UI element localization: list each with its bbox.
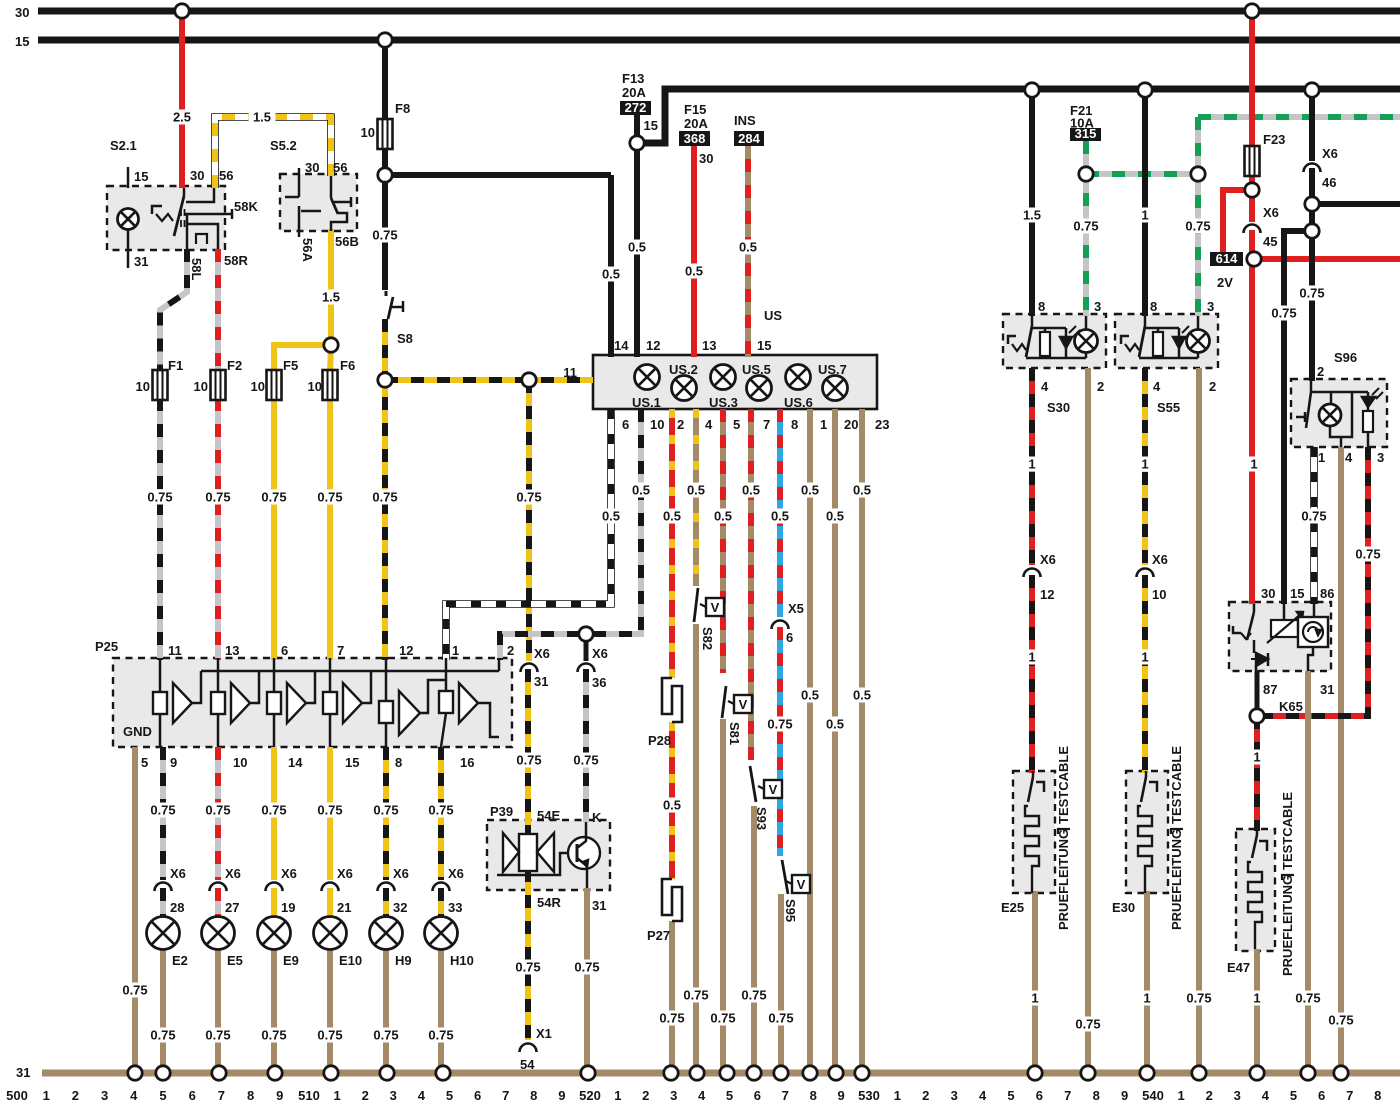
svg-text:4: 4 bbox=[1345, 450, 1353, 465]
svg-text:X6: X6 bbox=[448, 866, 464, 881]
svg-text:X6: X6 bbox=[1263, 205, 1279, 220]
svg-text:0.75: 0.75 bbox=[741, 988, 766, 1003]
svg-text:12: 12 bbox=[646, 338, 660, 353]
svg-text:S96: S96 bbox=[1334, 350, 1357, 365]
svg-text:0.5: 0.5 bbox=[801, 688, 819, 703]
svg-text:0.5: 0.5 bbox=[853, 688, 871, 703]
svg-text:0.75: 0.75 bbox=[683, 988, 708, 1003]
svg-text:1: 1 bbox=[1253, 991, 1260, 1006]
svg-text:284: 284 bbox=[738, 131, 760, 146]
svg-text:H9: H9 bbox=[395, 953, 412, 968]
svg-text:36: 36 bbox=[592, 675, 606, 690]
svg-text:7: 7 bbox=[1064, 1088, 1071, 1103]
svg-text:3: 3 bbox=[390, 1088, 397, 1103]
svg-text:US.6: US.6 bbox=[784, 395, 813, 410]
svg-text:1: 1 bbox=[1253, 750, 1260, 765]
svg-text:614: 614 bbox=[1216, 251, 1238, 266]
svg-text:3: 3 bbox=[1377, 450, 1384, 465]
svg-text:15: 15 bbox=[15, 34, 29, 49]
svg-text:0.75: 0.75 bbox=[1185, 219, 1210, 234]
svg-text:4: 4 bbox=[1262, 1088, 1270, 1103]
svg-text:0.75: 0.75 bbox=[516, 753, 541, 768]
svg-text:8: 8 bbox=[247, 1088, 254, 1103]
svg-text:0.75: 0.75 bbox=[372, 228, 397, 243]
svg-text:PRUEFLEITUNG: PRUEFLEITUNG bbox=[1169, 829, 1184, 930]
svg-text:F6: F6 bbox=[340, 358, 355, 373]
svg-text:7: 7 bbox=[337, 643, 344, 658]
svg-text:X1: X1 bbox=[536, 1026, 552, 1041]
svg-text:13: 13 bbox=[702, 338, 716, 353]
svg-text:0.75: 0.75 bbox=[428, 1028, 453, 1043]
svg-text:30: 30 bbox=[15, 5, 29, 20]
svg-text:X6: X6 bbox=[225, 866, 241, 881]
svg-text:0.75: 0.75 bbox=[1271, 306, 1296, 321]
svg-text:6: 6 bbox=[754, 1088, 761, 1103]
svg-text:1: 1 bbox=[452, 643, 459, 658]
svg-text:1: 1 bbox=[1250, 457, 1257, 472]
svg-text:2: 2 bbox=[1097, 379, 1104, 394]
svg-text:10: 10 bbox=[233, 755, 247, 770]
svg-text:X6: X6 bbox=[393, 866, 409, 881]
svg-text:14: 14 bbox=[614, 338, 629, 353]
svg-text:V: V bbox=[797, 877, 806, 892]
svg-text:0.75: 0.75 bbox=[573, 753, 598, 768]
svg-text:8: 8 bbox=[395, 755, 402, 770]
svg-text:15: 15 bbox=[757, 338, 771, 353]
svg-text:4: 4 bbox=[1153, 379, 1161, 394]
svg-text:6: 6 bbox=[474, 1088, 481, 1103]
svg-text:INS: INS bbox=[734, 113, 756, 128]
svg-text:S82: S82 bbox=[700, 627, 715, 650]
svg-text:E30: E30 bbox=[1112, 900, 1135, 915]
svg-text:7: 7 bbox=[502, 1088, 509, 1103]
svg-text:2: 2 bbox=[677, 417, 684, 432]
svg-text:315: 315 bbox=[1075, 126, 1097, 141]
svg-text:P25: P25 bbox=[95, 639, 118, 654]
svg-text:6: 6 bbox=[281, 643, 288, 658]
svg-text:6: 6 bbox=[786, 630, 793, 645]
svg-text:368: 368 bbox=[684, 131, 706, 146]
svg-text:F15: F15 bbox=[684, 102, 706, 117]
svg-text:1: 1 bbox=[1028, 650, 1035, 665]
svg-text:S93: S93 bbox=[754, 807, 769, 830]
svg-text:9: 9 bbox=[1121, 1088, 1128, 1103]
svg-text:K65: K65 bbox=[1279, 699, 1303, 714]
svg-text:X6: X6 bbox=[170, 866, 186, 881]
svg-text:15: 15 bbox=[644, 118, 658, 133]
svg-text:1: 1 bbox=[614, 1088, 621, 1103]
svg-text:S30: S30 bbox=[1047, 400, 1070, 415]
svg-text:0.75: 0.75 bbox=[768, 1011, 793, 1026]
svg-text:28: 28 bbox=[170, 900, 184, 915]
svg-text:1: 1 bbox=[333, 1088, 340, 1103]
svg-text:0.5: 0.5 bbox=[826, 509, 844, 524]
svg-text:X6: X6 bbox=[592, 646, 608, 661]
svg-text:F5: F5 bbox=[283, 358, 298, 373]
svg-text:30: 30 bbox=[1261, 586, 1275, 601]
svg-text:33: 33 bbox=[448, 900, 462, 915]
svg-text:5: 5 bbox=[141, 755, 148, 770]
svg-text:US.2: US.2 bbox=[669, 362, 698, 377]
svg-text:X6: X6 bbox=[281, 866, 297, 881]
svg-text:0.5: 0.5 bbox=[602, 509, 620, 524]
svg-text:0.75: 0.75 bbox=[372, 490, 397, 505]
svg-text:0.5: 0.5 bbox=[742, 483, 760, 498]
svg-text:GND: GND bbox=[123, 724, 152, 739]
svg-text:US.1: US.1 bbox=[632, 395, 661, 410]
svg-text:32: 32 bbox=[393, 900, 407, 915]
svg-text:8: 8 bbox=[1093, 1088, 1100, 1103]
svg-text:0.75: 0.75 bbox=[205, 490, 230, 505]
svg-text:8: 8 bbox=[530, 1088, 537, 1103]
svg-text:0.75: 0.75 bbox=[261, 803, 286, 818]
svg-text:0.75: 0.75 bbox=[205, 803, 230, 818]
svg-text:10: 10 bbox=[251, 379, 265, 394]
svg-text:56A: 56A bbox=[300, 238, 315, 262]
svg-text:0.75: 0.75 bbox=[1301, 509, 1326, 524]
svg-text:272: 272 bbox=[625, 100, 647, 115]
svg-text:S2.1: S2.1 bbox=[110, 138, 137, 153]
svg-text:4: 4 bbox=[418, 1088, 426, 1103]
svg-text:0.75: 0.75 bbox=[574, 960, 599, 975]
svg-text:510: 510 bbox=[298, 1088, 320, 1103]
svg-text:11: 11 bbox=[168, 643, 182, 658]
svg-text:9: 9 bbox=[276, 1088, 283, 1103]
svg-text:0.5: 0.5 bbox=[663, 798, 681, 813]
svg-text:X6: X6 bbox=[1040, 552, 1056, 567]
svg-text:8: 8 bbox=[1374, 1088, 1381, 1103]
svg-text:1: 1 bbox=[1141, 650, 1148, 665]
svg-text:9: 9 bbox=[558, 1088, 565, 1103]
svg-text:10: 10 bbox=[1152, 587, 1166, 602]
svg-text:0.5: 0.5 bbox=[628, 240, 646, 255]
svg-text:5: 5 bbox=[159, 1088, 166, 1103]
svg-text:1.5: 1.5 bbox=[322, 290, 340, 305]
svg-text:0.75: 0.75 bbox=[1295, 991, 1320, 1006]
svg-text:2: 2 bbox=[922, 1088, 929, 1103]
svg-text:V: V bbox=[739, 697, 748, 712]
svg-text:K: K bbox=[592, 810, 602, 825]
svg-text:0.5: 0.5 bbox=[714, 509, 732, 524]
svg-text:0.75: 0.75 bbox=[1186, 991, 1211, 1006]
svg-text:8: 8 bbox=[1150, 299, 1157, 314]
svg-text:X6: X6 bbox=[1152, 552, 1168, 567]
svg-text:20: 20 bbox=[844, 417, 858, 432]
svg-text:0.5: 0.5 bbox=[739, 240, 757, 255]
svg-text:0.5: 0.5 bbox=[771, 509, 789, 524]
svg-text:0.75: 0.75 bbox=[150, 1028, 175, 1043]
svg-text:0.75: 0.75 bbox=[1299, 286, 1324, 301]
svg-text:10: 10 bbox=[308, 379, 322, 394]
svg-text:9: 9 bbox=[170, 755, 177, 770]
svg-text:30: 30 bbox=[305, 160, 319, 175]
svg-text:0.75: 0.75 bbox=[1075, 1017, 1100, 1032]
svg-text:6: 6 bbox=[1318, 1088, 1325, 1103]
svg-text:20A: 20A bbox=[684, 116, 708, 131]
svg-text:11: 11 bbox=[563, 365, 577, 380]
svg-text:56: 56 bbox=[333, 160, 347, 175]
svg-text:15: 15 bbox=[345, 755, 359, 770]
svg-text:0.5: 0.5 bbox=[685, 264, 703, 279]
svg-text:P27: P27 bbox=[647, 928, 670, 943]
svg-text:US.3: US.3 bbox=[709, 395, 738, 410]
svg-text:6: 6 bbox=[1036, 1088, 1043, 1103]
svg-text:8: 8 bbox=[810, 1088, 817, 1103]
svg-text:0.75: 0.75 bbox=[261, 1028, 286, 1043]
svg-text:0.75: 0.75 bbox=[516, 490, 541, 505]
svg-text:58K: 58K bbox=[234, 199, 258, 214]
svg-text:2.5: 2.5 bbox=[173, 110, 191, 125]
svg-text:2: 2 bbox=[362, 1088, 369, 1103]
svg-text:58R: 58R bbox=[224, 253, 248, 268]
svg-text:520: 520 bbox=[579, 1088, 601, 1103]
svg-text:13: 13 bbox=[225, 643, 239, 658]
svg-text:10: 10 bbox=[361, 125, 375, 140]
svg-text:31: 31 bbox=[134, 254, 148, 269]
svg-text:86: 86 bbox=[1320, 586, 1334, 601]
svg-text:56: 56 bbox=[219, 168, 233, 183]
svg-text:46: 46 bbox=[1322, 175, 1336, 190]
svg-text:2: 2 bbox=[72, 1088, 79, 1103]
svg-text:0.75: 0.75 bbox=[122, 983, 147, 998]
svg-text:S8: S8 bbox=[397, 331, 413, 346]
svg-text:30: 30 bbox=[699, 151, 713, 166]
svg-text:0.5: 0.5 bbox=[853, 483, 871, 498]
svg-text:0.5: 0.5 bbox=[687, 483, 705, 498]
svg-text:5: 5 bbox=[726, 1088, 733, 1103]
svg-text:2: 2 bbox=[642, 1088, 649, 1103]
svg-text:1: 1 bbox=[43, 1088, 50, 1103]
svg-text:3: 3 bbox=[951, 1088, 958, 1103]
svg-text:E47: E47 bbox=[1227, 960, 1250, 975]
svg-text:E10: E10 bbox=[339, 953, 362, 968]
svg-text:5: 5 bbox=[446, 1088, 453, 1103]
svg-text:540: 540 bbox=[1142, 1088, 1164, 1103]
svg-text:3: 3 bbox=[1094, 299, 1101, 314]
svg-text:US.5: US.5 bbox=[742, 362, 771, 377]
svg-text:1.5: 1.5 bbox=[253, 110, 271, 125]
svg-text:530: 530 bbox=[858, 1088, 880, 1103]
svg-text:19: 19 bbox=[281, 900, 295, 915]
svg-text:5: 5 bbox=[1007, 1088, 1014, 1103]
svg-text:1: 1 bbox=[1177, 1088, 1184, 1103]
svg-text:58L: 58L bbox=[189, 258, 204, 280]
svg-text:2: 2 bbox=[1317, 364, 1324, 379]
svg-text:31: 31 bbox=[592, 898, 606, 913]
svg-text:PRUEFLEITUNG: PRUEFLEITUNG bbox=[1280, 875, 1295, 976]
svg-text:27: 27 bbox=[225, 900, 239, 915]
svg-text:X5: X5 bbox=[788, 601, 804, 616]
svg-text:56B: 56B bbox=[335, 234, 359, 249]
svg-text:0.5: 0.5 bbox=[663, 509, 681, 524]
svg-text:5: 5 bbox=[733, 417, 740, 432]
svg-text:31: 31 bbox=[16, 1065, 30, 1080]
svg-text:X6: X6 bbox=[534, 646, 550, 661]
svg-text:F1: F1 bbox=[168, 358, 183, 373]
svg-text:F13: F13 bbox=[622, 71, 644, 86]
svg-text:500: 500 bbox=[6, 1088, 28, 1103]
svg-text:14: 14 bbox=[288, 755, 303, 770]
svg-text:3: 3 bbox=[1207, 299, 1214, 314]
svg-text:0.75: 0.75 bbox=[373, 803, 398, 818]
svg-text:10: 10 bbox=[136, 379, 150, 394]
svg-text:9: 9 bbox=[837, 1088, 844, 1103]
svg-text:E9: E9 bbox=[283, 953, 299, 968]
svg-text:E2: E2 bbox=[172, 953, 188, 968]
svg-text:12: 12 bbox=[399, 643, 413, 658]
svg-text:10: 10 bbox=[650, 417, 664, 432]
svg-text:0.75: 0.75 bbox=[147, 490, 172, 505]
svg-text:1: 1 bbox=[1028, 457, 1035, 472]
svg-text:TESTCABLE: TESTCABLE bbox=[1169, 746, 1184, 824]
svg-text:4: 4 bbox=[979, 1088, 987, 1103]
svg-text:S5.2: S5.2 bbox=[270, 138, 297, 153]
svg-text:P28: P28 bbox=[648, 733, 671, 748]
svg-text:E5: E5 bbox=[227, 953, 243, 968]
svg-text:3: 3 bbox=[101, 1088, 108, 1103]
svg-text:F2: F2 bbox=[227, 358, 242, 373]
svg-text:1: 1 bbox=[1141, 208, 1148, 223]
svg-text:4: 4 bbox=[130, 1088, 138, 1103]
svg-text:1: 1 bbox=[1143, 991, 1150, 1006]
svg-text:S81: S81 bbox=[727, 722, 742, 745]
svg-text:15: 15 bbox=[1290, 586, 1304, 601]
svg-text:12: 12 bbox=[1040, 587, 1054, 602]
svg-text:0.75: 0.75 bbox=[1073, 219, 1098, 234]
svg-text:0.75: 0.75 bbox=[373, 1028, 398, 1043]
svg-text:0.75: 0.75 bbox=[317, 490, 342, 505]
svg-text:54E: 54E bbox=[537, 808, 560, 823]
svg-text:6: 6 bbox=[189, 1088, 196, 1103]
svg-text:0.75: 0.75 bbox=[1328, 1013, 1353, 1028]
svg-text:7: 7 bbox=[1346, 1088, 1353, 1103]
svg-text:S95: S95 bbox=[783, 899, 798, 922]
svg-text:45: 45 bbox=[1263, 234, 1277, 249]
svg-text:16: 16 bbox=[460, 755, 474, 770]
svg-text:4: 4 bbox=[705, 417, 713, 432]
svg-text:V: V bbox=[711, 600, 720, 615]
svg-text:0.75: 0.75 bbox=[428, 803, 453, 818]
svg-text:7: 7 bbox=[218, 1088, 225, 1103]
svg-text:1: 1 bbox=[1141, 457, 1148, 472]
svg-text:4: 4 bbox=[698, 1088, 706, 1103]
svg-text:0.5: 0.5 bbox=[801, 483, 819, 498]
svg-text:1.5: 1.5 bbox=[1023, 208, 1041, 223]
svg-text:0.75: 0.75 bbox=[205, 1028, 230, 1043]
svg-text:V: V bbox=[769, 782, 778, 797]
svg-text:23: 23 bbox=[875, 417, 889, 432]
svg-text:E25: E25 bbox=[1001, 900, 1024, 915]
svg-text:1: 1 bbox=[894, 1088, 901, 1103]
svg-text:US: US bbox=[764, 308, 782, 323]
svg-text:US.7: US.7 bbox=[818, 362, 847, 377]
svg-text:X6: X6 bbox=[1322, 146, 1338, 161]
svg-text:15: 15 bbox=[134, 169, 148, 184]
svg-text:2: 2 bbox=[1206, 1088, 1213, 1103]
svg-text:2V: 2V bbox=[1217, 275, 1233, 290]
svg-text:H10: H10 bbox=[450, 953, 474, 968]
svg-text:8: 8 bbox=[1038, 299, 1045, 314]
svg-text:7: 7 bbox=[763, 417, 770, 432]
svg-text:S55: S55 bbox=[1157, 400, 1180, 415]
svg-text:54: 54 bbox=[520, 1057, 535, 1072]
svg-text:0.5: 0.5 bbox=[632, 483, 650, 498]
svg-text:54R: 54R bbox=[537, 895, 561, 910]
svg-text:30: 30 bbox=[190, 168, 204, 183]
svg-text:0.75: 0.75 bbox=[515, 960, 540, 975]
svg-text:87: 87 bbox=[1263, 682, 1277, 697]
svg-text:0.75: 0.75 bbox=[1355, 547, 1380, 562]
svg-text:5: 5 bbox=[1290, 1088, 1297, 1103]
svg-text:10: 10 bbox=[194, 379, 208, 394]
svg-text:1: 1 bbox=[820, 417, 827, 432]
svg-text:F8: F8 bbox=[395, 101, 410, 116]
svg-text:2: 2 bbox=[507, 643, 514, 658]
svg-text:P39: P39 bbox=[490, 804, 513, 819]
svg-text:4: 4 bbox=[1041, 379, 1049, 394]
svg-text:0.75: 0.75 bbox=[261, 490, 286, 505]
svg-text:8: 8 bbox=[791, 417, 798, 432]
svg-text:0.75: 0.75 bbox=[710, 1011, 735, 1026]
svg-text:TESTCABLE: TESTCABLE bbox=[1056, 746, 1071, 824]
svg-text:3: 3 bbox=[1234, 1088, 1241, 1103]
svg-text:0.75: 0.75 bbox=[767, 717, 792, 732]
svg-text:TESTCABLE: TESTCABLE bbox=[1280, 792, 1295, 870]
svg-text:PRUEFLEITUNG: PRUEFLEITUNG bbox=[1056, 829, 1071, 930]
svg-text:0.5: 0.5 bbox=[826, 717, 844, 732]
svg-text:0.75: 0.75 bbox=[659, 1011, 684, 1026]
svg-text:21: 21 bbox=[337, 900, 351, 915]
svg-text:2: 2 bbox=[1209, 379, 1216, 394]
svg-text:1: 1 bbox=[1031, 991, 1038, 1006]
svg-text:X6: X6 bbox=[337, 866, 353, 881]
svg-text:6: 6 bbox=[622, 417, 629, 432]
svg-text:0.75: 0.75 bbox=[317, 803, 342, 818]
svg-text:1: 1 bbox=[1318, 450, 1325, 465]
svg-text:0.75: 0.75 bbox=[317, 1028, 342, 1043]
svg-text:F23: F23 bbox=[1263, 132, 1285, 147]
svg-text:31: 31 bbox=[534, 674, 548, 689]
svg-text:3: 3 bbox=[670, 1088, 677, 1103]
svg-text:20A: 20A bbox=[622, 85, 646, 100]
svg-text:0.75: 0.75 bbox=[150, 803, 175, 818]
svg-text:0.5: 0.5 bbox=[602, 267, 620, 282]
svg-text:31: 31 bbox=[1320, 682, 1334, 697]
svg-text:7: 7 bbox=[782, 1088, 789, 1103]
